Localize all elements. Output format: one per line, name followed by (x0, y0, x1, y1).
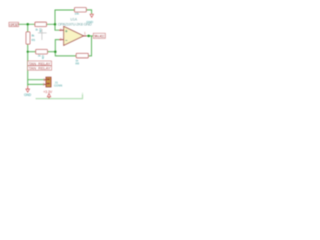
svg-text:R5: R5 (32, 38, 36, 42)
svg-text:R8: R8 (76, 61, 80, 65)
svg-text:10k: 10k (41, 55, 45, 60)
svg-text:GPIO17: GPIO17 (10, 23, 19, 27)
svg-text:GND: GND (86, 20, 94, 24)
svg-text:2: 2 (60, 38, 62, 42)
svg-text:U1A: U1A (70, 18, 77, 22)
svg-text:+3.3V: +3.3V (43, 90, 53, 94)
svg-text:TAN_RELAY: TAN_RELAY (29, 66, 51, 71)
svg-text:2: 2 (43, 83, 45, 87)
svg-text:GND: GND (24, 93, 32, 97)
svg-text:CONN: CONN (54, 84, 62, 88)
svg-text:1: 1 (84, 32, 86, 36)
svg-text:10k: 10k (75, 12, 80, 16)
svg-text:1: 1 (43, 78, 45, 82)
svg-text:3: 3 (60, 28, 62, 32)
svg-text:TAN_ADC: TAN_ADC (94, 35, 105, 39)
